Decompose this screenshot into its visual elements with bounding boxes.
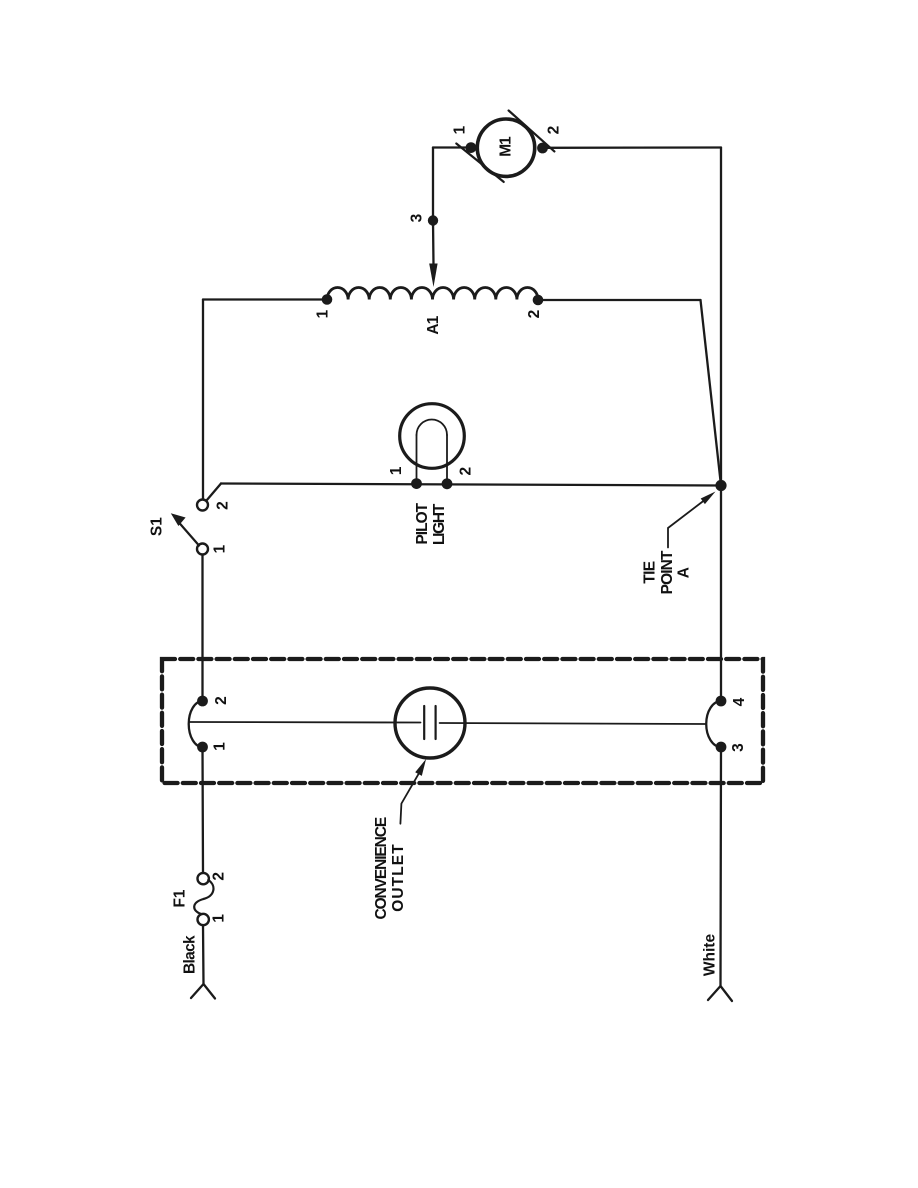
svg-text:2: 2: [210, 872, 227, 881]
node 3 junction dot: [428, 215, 438, 225]
right connector arc: [706, 701, 721, 747]
svg-text:2: 2: [458, 467, 475, 476]
svg-text:4: 4: [731, 697, 748, 706]
coil terminal dot 1: [322, 294, 333, 305]
svg-text:A1: A1: [425, 315, 442, 334]
wire outlet row left segment: [189, 721, 421, 724]
pilot terminal dot 1: [411, 478, 422, 489]
outlet plate right: [435, 706, 437, 739]
fuse F1 S-curve: [194, 880, 213, 914]
M1 brush slash left: [456, 144, 503, 182]
pilot light filament left leg: [416, 435, 418, 484]
motor M1: [477, 119, 534, 176]
M1 brush slash right: [509, 111, 555, 152]
wire M1 left lead: [433, 146, 468, 148]
svg-text:A: A: [676, 567, 693, 578]
svg-text:POINT: POINT: [659, 550, 676, 594]
svg-text:1: 1: [452, 125, 469, 134]
arrowhead into coil A1: [429, 264, 437, 288]
svg-text:1: 1: [314, 309, 331, 318]
svg-text:M1: M1: [498, 136, 515, 157]
wire node 3 to arrow shaft: [432, 221, 435, 266]
fuse F1 circle 1: [198, 914, 209, 925]
svg-text:1: 1: [388, 466, 405, 475]
coil terminal dot 2: [533, 295, 544, 306]
svg-text:F1: F1: [172, 889, 189, 907]
wire right vertical bus (below connector): [719, 747, 722, 986]
left connector dot 2: [197, 696, 208, 707]
wire coil left lead: [203, 298, 327, 300]
wire left vertical down to switch S1: [202, 300, 204, 500]
M1 terminal dot 2: [537, 143, 548, 154]
svg-text:S1: S1: [149, 517, 166, 536]
M1 terminal dot 1: [466, 142, 477, 153]
wire vertical from M1 corner down to node 3: [432, 148, 434, 221]
pilot terminal dot 2: [442, 478, 453, 489]
svg-text:CONVENIENCE: CONVENIENCE: [373, 817, 390, 919]
svg-text:LIGHT: LIGHT: [431, 503, 448, 545]
wire M1 right lead to right bus corner: [545, 146, 721, 149]
wire connector terminal 1 down to fuse F1: [201, 747, 204, 873]
wire pilot light bus to tie point: [221, 484, 721, 486]
tie point A junction dot: [715, 480, 726, 491]
wire right vertical bus (White side, top): [720, 148, 722, 702]
wire fuse F1 down to Black lead: [202, 925, 205, 984]
svg-text:3: 3: [730, 743, 747, 752]
inductor coil A1: [327, 288, 538, 300]
right connector dot 4: [716, 696, 727, 707]
wire S1 terminal 1 down into outlet box: [201, 555, 203, 702]
svg-text:PILOT: PILOT: [414, 502, 431, 544]
outlet plate left: [423, 706, 425, 739]
outlet leader arrowhead: [415, 759, 426, 776]
svg-text:1: 1: [212, 544, 229, 553]
White lead fork: [708, 986, 732, 1001]
switch S1 terminal circle 1: [197, 544, 208, 555]
svg-text:2: 2: [215, 501, 232, 510]
left connector arc: [189, 701, 203, 747]
svg-text:Black: Black: [182, 935, 199, 974]
svg-text:2: 2: [546, 126, 563, 135]
svg-text:1: 1: [212, 742, 229, 751]
switch S1 blade arrowhead: [171, 513, 186, 526]
outlet leader line: [400, 773, 419, 824]
switch S1 terminal circle 2: [197, 500, 208, 511]
svg-text:TIE: TIE: [642, 561, 659, 583]
wire jog from S1 terminal 2 to pilot bus: [207, 484, 222, 501]
svg-text:2: 2: [213, 696, 230, 705]
dashed outlet box: [162, 659, 763, 783]
right connector dot 3: [716, 742, 727, 753]
fuse F1 circle 2: [198, 873, 209, 884]
svg-text:1: 1: [211, 914, 228, 923]
pilot light circle: [400, 404, 465, 469]
svg-text:3: 3: [409, 213, 426, 222]
wire diagonal from coil lead to tie point: [701, 300, 722, 486]
convenience outlet circle: [395, 688, 465, 758]
svg-text:2: 2: [526, 310, 543, 319]
tie point leader line: [668, 501, 704, 548]
left connector dot 1: [197, 742, 208, 753]
pilot light filament right leg: [446, 435, 448, 484]
svg-text:White: White: [702, 934, 719, 977]
tie point leader arrowhead: [701, 492, 716, 505]
wire coil right lead: [538, 299, 701, 301]
Black lead fork: [191, 984, 215, 999]
switch S1 blade: [179, 522, 200, 546]
svg-text:OUTLET: OUTLET: [390, 843, 407, 912]
pilot light filament arch: [417, 420, 448, 436]
wire outlet row right segment: [440, 723, 706, 724]
